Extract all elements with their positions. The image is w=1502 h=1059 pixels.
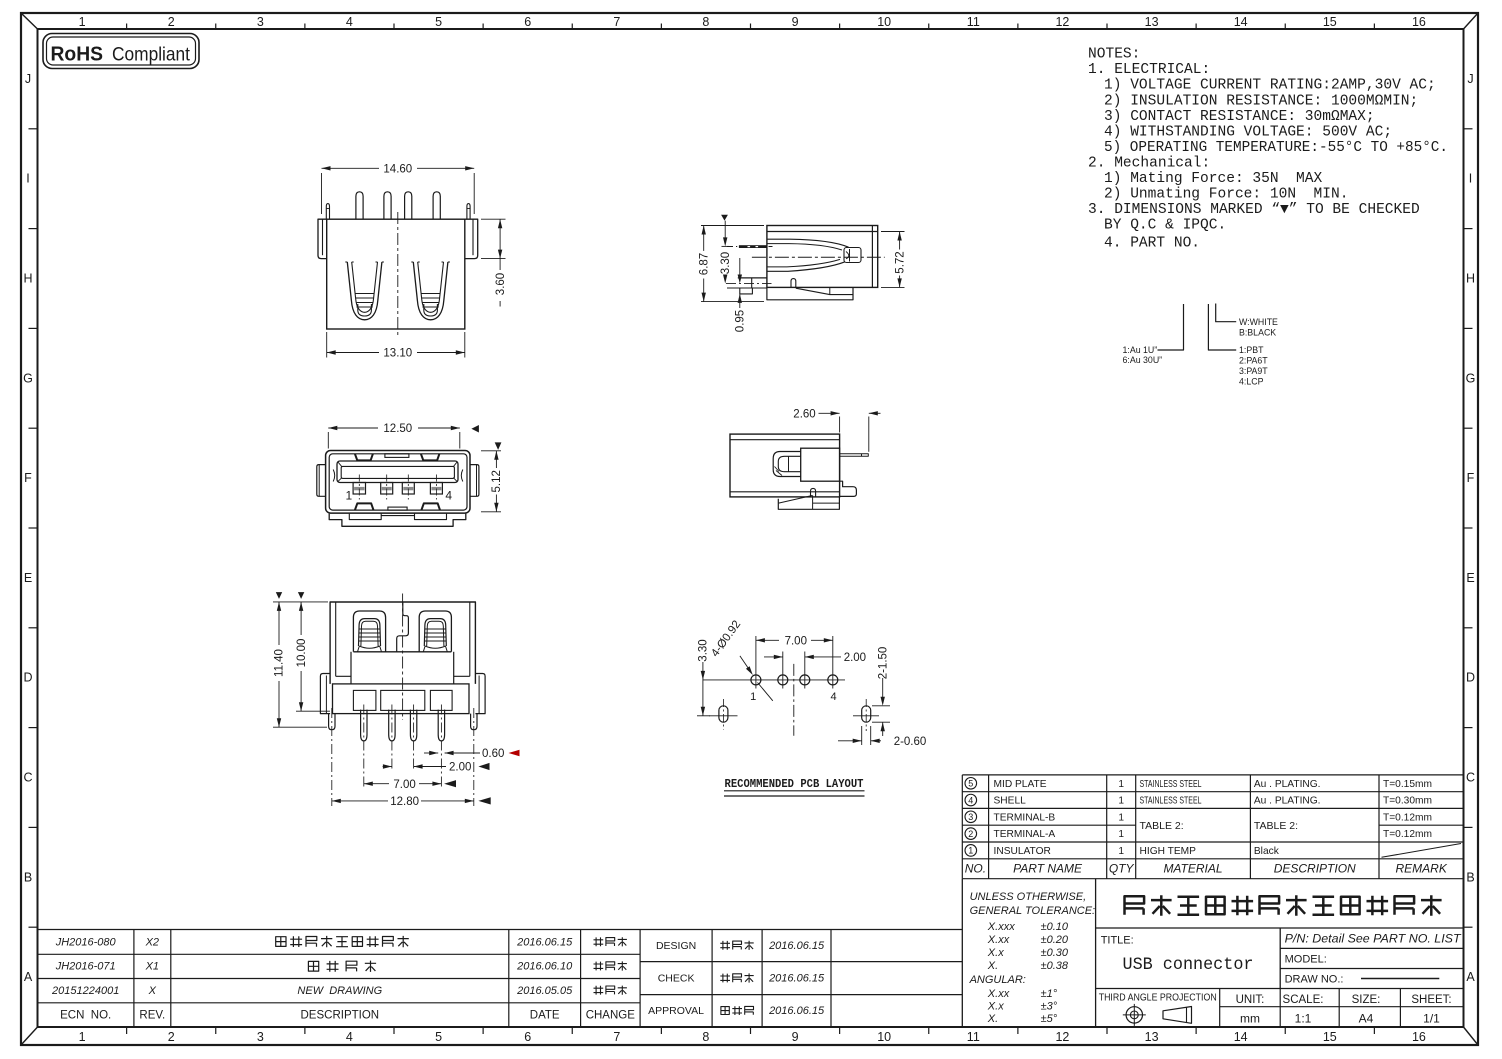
svg-text:NOTES:: NOTES:: [1088, 47, 1140, 63]
svg-text:X.: X.: [987, 1013, 998, 1025]
svg-text:F: F: [1467, 471, 1475, 485]
notes text block: [1088, 47, 1448, 252]
dim 3.30: [720, 221, 732, 284]
svg-text:ECN NO.: ECN NO.: [60, 1009, 111, 1021]
dim 11.40: [273, 602, 328, 727]
svg-text:SCALE:: SCALE:: [1283, 994, 1324, 1006]
svg-text:BY Q.C & IPQC.: BY Q.C & IPQC.: [1104, 218, 1226, 234]
svg-text:10: 10: [877, 15, 891, 29]
view1 solder pins: [356, 192, 363, 219]
svg-text:I: I: [1469, 172, 1472, 186]
svg-text:JH2016-080: JH2016-080: [55, 936, 117, 948]
title block grid: [962, 879, 1463, 1027]
view5 pegs: [329, 714, 335, 730]
dim 2-1.50: [872, 647, 890, 736]
svg-text:10.00: 10.00: [296, 639, 308, 668]
svg-text:T=0.30mm: T=0.30mm: [1383, 796, 1432, 807]
svg-text:A4: A4: [1359, 1012, 1374, 1026]
svg-text:T=0.12mm: T=0.12mm: [1383, 812, 1432, 823]
svg-text:±1°: ±1°: [1041, 988, 1058, 1000]
svg-text:7.00: 7.00: [393, 779, 415, 791]
svg-text:2.00: 2.00: [449, 762, 471, 774]
dim 5.12: [481, 442, 503, 511]
svg-text:2: 2: [168, 15, 175, 29]
svg-text:2016.06.15: 2016.06.15: [516, 936, 573, 948]
svg-text:X.x: X.x: [987, 1001, 1004, 1013]
svg-text:1: 1: [1118, 846, 1124, 857]
part number legend tree: [1123, 304, 1279, 387]
view4 overmold block: [801, 448, 840, 481]
svg-text:Au . PLATING.: Au . PLATING.: [1254, 779, 1321, 790]
svg-text:±0.10: ±0.10: [1041, 921, 1069, 933]
svg-text:6: 6: [524, 15, 531, 29]
svg-text:SIZE:: SIZE:: [1352, 994, 1381, 1006]
svg-text:14: 14: [1234, 15, 1248, 29]
dim 7.00: [364, 779, 456, 791]
svg-text:NO.: NO.: [965, 862, 986, 876]
svg-text:2016.06.15: 2016.06.15: [768, 940, 825, 952]
svg-text:0.60: 0.60: [482, 748, 504, 760]
svg-text:4: 4: [968, 795, 973, 805]
svg-text:2. Mechanical:: 2. Mechanical:: [1088, 156, 1210, 172]
svg-text:7: 7: [613, 1030, 620, 1044]
svg-text:TERMINAL-B: TERMINAL-B: [994, 812, 1056, 823]
view1 left wing: [318, 219, 327, 258]
svg-text:3:PA9T: 3:PA9T: [1239, 366, 1268, 376]
view3 bottom latch cutouts: [355, 503, 374, 510]
svg-text:2-1.50: 2-1.50: [877, 647, 889, 680]
svg-text:2) Unmating Force: 10N MIN.: 2) Unmating Force: 10N MIN.: [1104, 187, 1348, 203]
svg-text:4:LCP: 4:LCP: [1239, 376, 1264, 386]
view3 base: [329, 514, 466, 527]
svg-text:4: 4: [346, 15, 353, 29]
svg-text:1: 1: [79, 1030, 86, 1044]
svg-text:1: 1: [79, 15, 86, 29]
parts table: [962, 775, 1463, 879]
svg-text:3.60: 3.60: [495, 273, 507, 295]
svg-text:2) INSULATION RESISTANCE: 1000: 2) INSULATION RESISTANCE: 1000MΩMIN;: [1104, 93, 1418, 109]
svg-text:TITLE:: TITLE:: [1101, 935, 1134, 947]
view4 side view body: [730, 434, 868, 509]
dim 13.10: [327, 332, 465, 360]
svg-text:1: 1: [1118, 829, 1124, 840]
svg-text:H: H: [1466, 272, 1475, 286]
svg-text:REMARK: REMARK: [1396, 862, 1448, 876]
view3 top latch cutouts: [355, 454, 373, 461]
svg-text:1: 1: [1118, 779, 1124, 790]
dim 2.60: [793, 409, 880, 452]
view5 checked triangles: [276, 592, 282, 599]
svg-text:1) VOLTAGE CURRENT RATING:2AMP: 1) VOLTAGE CURRENT RATING:2AMP,30V AC;: [1104, 78, 1436, 94]
svg-text:2:PA6T: 2:PA6T: [1239, 355, 1268, 365]
svg-text:20151224001: 20151224001: [51, 985, 119, 997]
svg-text:1: 1: [1118, 812, 1124, 823]
svg-text:MATERIAL: MATERIAL: [1163, 862, 1222, 876]
svg-text:CHANGE: CHANGE: [586, 1009, 636, 1021]
view2 centerline: [752, 256, 885, 258]
dim 3.60: [481, 219, 507, 306]
svg-text:B:BLACK: B:BLACK: [1239, 328, 1276, 338]
dim pcb 3.30: [697, 639, 710, 715]
svg-text:PART NAME: PART NAME: [1013, 862, 1083, 876]
svg-text:TABLE 2:: TABLE 2:: [1140, 820, 1184, 832]
svg-text:QTY: QTY: [1109, 862, 1135, 876]
svg-text:6:Au 30U”: 6:Au 30U”: [1123, 355, 1163, 365]
svg-text:X.x: X.x: [987, 947, 1004, 959]
svg-text:11: 11: [967, 15, 980, 29]
svg-text:J: J: [25, 72, 31, 86]
svg-text:2016.06.15: 2016.06.15: [768, 1005, 825, 1017]
svg-text:mm: mm: [1240, 1012, 1260, 1026]
svg-text:3) CONTACT RESISTANCE: 30mΩMAX: 3) CONTACT RESISTANCE: 30mΩMAX;: [1104, 109, 1375, 125]
svg-text:C: C: [1466, 771, 1475, 785]
zone row ticks: [29, 128, 38, 130]
svg-text:4: 4: [830, 691, 836, 703]
view2 tongue front: [738, 277, 767, 279]
svg-text:X.xx: X.xx: [987, 934, 1010, 946]
svg-text:T=0.12mm: T=0.12mm: [1383, 829, 1432, 840]
view5 center seam: [397, 602, 409, 652]
dim 12.50: [328, 423, 479, 448]
view1 right wing: [465, 219, 478, 258]
svg-text:6.87: 6.87: [698, 253, 710, 275]
svg-text:1:PBT: 1:PBT: [1239, 345, 1264, 355]
view3 front view shell: [317, 451, 479, 527]
svg-text:MODEL:: MODEL:: [1285, 954, 1327, 966]
view5 bottom view shell: [320, 594, 485, 807]
svg-text:X.: X.: [987, 960, 998, 972]
svg-text:W:WHITE: W:WHITE: [1239, 317, 1278, 327]
svg-text:H: H: [23, 272, 32, 286]
view3 contact pads: [353, 483, 365, 495]
svg-text:P/N: Detail See PART NO. LIST: P/N: Detail See PART NO. LIST: [1285, 934, 1462, 946]
svg-text:4: 4: [445, 488, 452, 502]
view1 contact cavities: [347, 262, 382, 320]
view2 terminal pin: [739, 245, 767, 248]
svg-text:USB connector: USB connector: [1123, 955, 1254, 975]
svg-text:D: D: [23, 671, 32, 685]
svg-text:D: D: [1466, 671, 1475, 685]
view3 right ear: [470, 465, 479, 497]
view1 centerline: [397, 212, 399, 336]
svg-text:7.00: 7.00: [785, 636, 807, 648]
dim 12.80: [332, 796, 491, 808]
revision table grid: [38, 930, 963, 1028]
svg-text:5: 5: [435, 15, 442, 29]
view2 spring contact: [767, 239, 849, 247]
svg-text:11: 11: [967, 1030, 980, 1044]
svg-text:10: 10: [877, 1030, 891, 1044]
svg-text:E: E: [24, 571, 32, 585]
svg-text:APPROVAL: APPROVAL: [648, 1005, 704, 1017]
svg-text:5: 5: [435, 1030, 442, 1044]
svg-text:5) OPERATING TEMPERATURE:-55°C: 5) OPERATING TEMPERATURE:-55°C TO +85°C.: [1104, 140, 1448, 156]
approval rows: [648, 940, 825, 1017]
svg-text:3.30: 3.30: [720, 252, 732, 274]
svg-text:3: 3: [257, 15, 264, 29]
svg-text:THIRD ANGLE PROJECTION: THIRD ANGLE PROJECTION: [1099, 993, 1217, 1004]
svg-text:DRAW NO.:: DRAW NO.:: [1285, 974, 1344, 986]
view5 centerline: [402, 594, 404, 721]
view6 pcb holes: [703, 636, 845, 736]
svg-text:1. ELECTRICAL:: 1. ELECTRICAL:: [1088, 62, 1210, 78]
svg-text:GENERAL TOLERANCE:: GENERAL TOLERANCE:: [970, 905, 1096, 917]
svg-text:12.50: 12.50: [383, 423, 412, 435]
view2 side view body: [726, 226, 885, 300]
svg-text:X2: X2: [145, 936, 159, 948]
svg-text:G: G: [1466, 371, 1476, 385]
dim 0.60: [424, 748, 520, 760]
svg-text:13: 13: [1145, 1030, 1159, 1044]
svg-text:TERMINAL-A: TERMINAL-A: [994, 829, 1056, 840]
dim pcb 2.00: [764, 652, 866, 664]
svg-text:I: I: [26, 172, 29, 186]
svg-text:A: A: [1466, 970, 1475, 984]
svg-text:4) WITHSTANDING VOLTAGE: 500V: 4) WITHSTANDING VOLTAGE: 500V AC;: [1104, 124, 1392, 140]
view5 base: [333, 684, 470, 714]
corner diagonals: [21, 13, 38, 29]
view5 pins: [361, 710, 367, 741]
svg-text:X.xx: X.xx: [987, 988, 1010, 1000]
svg-text:NEW DRAWING: NEW DRAWING: [297, 985, 382, 997]
dim 4-phi0.92 leader: [709, 619, 773, 701]
svg-text:±0.20: ±0.20: [1041, 934, 1069, 946]
svg-text:1: 1: [1118, 796, 1124, 807]
dim 2.00: [383, 762, 490, 774]
svg-text:2016.06.15: 2016.06.15: [768, 972, 825, 984]
dim 0.95: [735, 258, 747, 332]
svg-text:C: C: [23, 771, 32, 785]
svg-text:13.10: 13.10: [383, 348, 412, 360]
view4 right foot: [840, 481, 857, 496]
svg-text:5.12: 5.12: [491, 470, 503, 492]
view2 bottom foot right: [767, 287, 853, 299]
view3 tongue: [337, 461, 458, 483]
svg-text:5.72: 5.72: [894, 251, 906, 273]
dim 10.00: [296, 602, 330, 711]
view6 center dashline: [793, 664, 795, 736]
dim 14.60: [322, 164, 475, 215]
svg-text:Au . PLATING.: Au . PLATING.: [1254, 796, 1321, 807]
svg-text:13: 13: [1145, 15, 1159, 29]
svg-text:RECOMMENDED PCB LAYOUT: RECOMMENDED PCB LAYOUT: [725, 777, 864, 791]
svg-text:Black: Black: [1254, 846, 1280, 857]
svg-text:2.60: 2.60: [793, 409, 815, 421]
zone column ticks: [126, 24, 128, 30]
svg-text:UNLESS OTHERWISE,: UNLESS OTHERWISE,: [970, 891, 1087, 903]
view5 contact tulips: [353, 611, 385, 652]
svg-text:1:Au 1U”: 1:Au 1U”: [1123, 345, 1158, 355]
view2 bottom foot left: [727, 287, 767, 289]
svg-text:DESCRIPTION: DESCRIPTION: [1274, 862, 1356, 876]
svg-text:CHECK: CHECK: [658, 972, 695, 984]
svg-text:12: 12: [1055, 1030, 1069, 1044]
svg-text:9: 9: [792, 15, 799, 29]
svg-text:1:1: 1:1: [1295, 1012, 1312, 1026]
svg-text:2: 2: [168, 1030, 175, 1044]
svg-text:1: 1: [750, 691, 756, 703]
svg-text:4-Ø0.92: 4-Ø0.92: [709, 619, 743, 660]
svg-text:G: G: [23, 371, 33, 385]
svg-text:11.40: 11.40: [274, 649, 286, 677]
svg-text:STAINLESS STEEL: STAINLESS STEEL: [1140, 779, 1202, 790]
svg-text:REV.: REV.: [139, 1009, 165, 1021]
svg-text:0.95: 0.95: [735, 310, 747, 332]
svg-text:2-0.60: 2-0.60: [894, 736, 927, 748]
svg-text:TABLE 2:: TABLE 2:: [1254, 820, 1298, 832]
svg-text:1/1: 1/1: [1423, 1012, 1440, 1026]
svg-text:15: 15: [1323, 1030, 1337, 1044]
svg-text:4: 4: [346, 1030, 353, 1044]
svg-text:9: 9: [792, 1030, 799, 1044]
pcb layout title: [724, 777, 865, 796]
svg-text:STAINLESS STEEL: STAINLESS STEEL: [1140, 796, 1202, 807]
dim pcb 7.00: [756, 636, 833, 648]
svg-text:DATE: DATE: [530, 1009, 560, 1021]
svg-text:2016.05.05: 2016.05.05: [516, 985, 573, 997]
svg-text:8: 8: [702, 15, 709, 29]
svg-text:RoHS: RoHS: [51, 44, 104, 66]
company name (Chinese): [1125, 895, 1442, 916]
svg-text:1: 1: [345, 488, 352, 502]
svg-text:F: F: [24, 471, 32, 485]
svg-text:±5°: ±5°: [1041, 1013, 1058, 1025]
svg-text:HIGH TEMP: HIGH TEMP: [1140, 846, 1197, 857]
svg-text:5: 5: [968, 779, 973, 789]
svg-text:2016.06.10: 2016.06.10: [516, 961, 573, 973]
svg-text:1: 1: [968, 846, 973, 856]
svg-text:UNIT:: UNIT:: [1236, 994, 1265, 1006]
svg-text:16: 16: [1412, 1030, 1426, 1044]
view1 top view body: [318, 192, 478, 336]
view2 checked triangle: [721, 215, 728, 221]
svg-text:B: B: [1466, 870, 1474, 884]
svg-text:ANGULAR:: ANGULAR:: [969, 974, 1026, 986]
svg-text:B: B: [24, 870, 32, 884]
svg-text:SHELL: SHELL: [994, 796, 1027, 807]
svg-text:DESCRIPTION: DESCRIPTION: [301, 1009, 380, 1021]
svg-text:J: J: [1467, 72, 1473, 86]
svg-text:MID PLATE: MID PLATE: [994, 779, 1047, 790]
RoHS Compliant stamp: [43, 34, 199, 69]
svg-text:14: 14: [1234, 1030, 1248, 1044]
svg-text:T=0.15mm: T=0.15mm: [1383, 779, 1432, 790]
svg-text:3.30: 3.30: [698, 639, 710, 661]
svg-text:7: 7: [613, 15, 620, 29]
svg-text:Compliant: Compliant: [112, 44, 191, 66]
view5 insulator block: [353, 651, 451, 653]
svg-text:15: 15: [1323, 15, 1337, 29]
view4 spring contact: [773, 452, 801, 477]
svg-text:DESIGN: DESIGN: [656, 940, 696, 952]
svg-text:8: 8: [702, 1030, 709, 1044]
svg-text:16: 16: [1412, 15, 1426, 29]
svg-text:6: 6: [524, 1030, 531, 1044]
svg-text:±3°: ±3°: [1041, 1001, 1058, 1013]
svg-text:X1: X1: [145, 961, 159, 973]
svg-text:±0.38: ±0.38: [1041, 960, 1069, 972]
svg-text:1) Mating Force: 35N MAX: 1) Mating Force: 35N MAX: [1104, 171, 1323, 187]
svg-text:X: X: [148, 985, 157, 997]
view6 slots: [709, 699, 879, 731]
svg-text:14.60: 14.60: [383, 164, 412, 176]
tolerance box: [969, 891, 1096, 1025]
svg-text:3: 3: [968, 812, 973, 822]
dim 2-0.60: [838, 726, 926, 748]
svg-text:4. PART NO.: 4. PART NO.: [1104, 236, 1200, 252]
view4 bottom tab: [811, 488, 816, 497]
dim 6.87: [698, 226, 764, 302]
svg-text:12: 12: [1055, 15, 1069, 29]
revision rows: [51, 936, 635, 1022]
view5 left ear: [320, 674, 330, 714]
view3 left ear: [317, 465, 326, 497]
svg-text:2: 2: [968, 829, 973, 839]
svg-text:12.80: 12.80: [390, 796, 419, 808]
svg-text:X.xxx: X.xxx: [987, 921, 1015, 933]
view4 pin: [840, 454, 869, 456]
svg-text:±0.30: ±0.30: [1041, 947, 1069, 959]
view1 shell tabs: [326, 204, 329, 220]
svg-text:3. DIMENSIONS MARKED “▼” TO BE: 3. DIMENSIONS MARKED “▼” TO BE CHECKED: [1088, 202, 1420, 218]
svg-text:2.00: 2.00: [844, 652, 866, 664]
view5 right ear: [475, 674, 485, 714]
svg-text:A: A: [24, 970, 33, 984]
svg-text:JH2016-071: JH2016-071: [55, 961, 116, 973]
view4 solder base: [778, 497, 839, 509]
svg-text:INSULATOR: INSULATOR: [994, 846, 1051, 857]
svg-text:E: E: [1466, 571, 1474, 585]
svg-text:3: 3: [257, 1030, 264, 1044]
svg-text:SHEET:: SHEET:: [1411, 994, 1451, 1006]
dim 5.72: [881, 232, 906, 288]
